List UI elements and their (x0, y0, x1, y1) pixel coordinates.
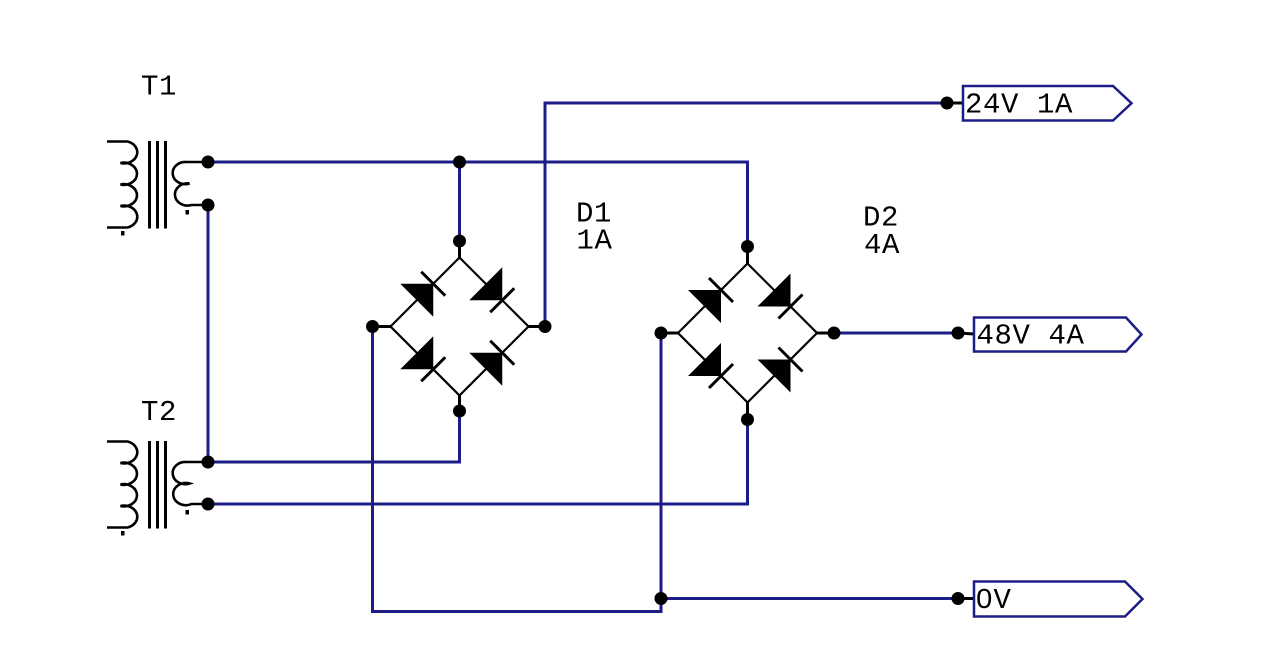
D2 diode lower-left (688, 343, 721, 376)
D1 pins (379, 246, 540, 407)
svg-text:1A: 1A (577, 225, 613, 258)
transformer T1 core (150, 141, 166, 229)
0V connector flag (974, 582, 1143, 617)
node 0V branch junction (655, 592, 668, 605)
transformer T2 secondary winding (173, 462, 207, 505)
transformer T2 core (150, 441, 166, 529)
D1 diode lower-right (469, 353, 502, 386)
node 24V junction (941, 97, 954, 110)
transformer T2 primary winding (107, 442, 137, 528)
node D1 bottom (453, 405, 466, 418)
OUTPUT 24V (941, 86, 1132, 122)
node D2 right (828, 327, 841, 340)
D1 diode upper-left (400, 284, 433, 317)
D2 diode lower-right (758, 360, 791, 393)
D1 diode lower-left (400, 336, 433, 369)
node T1 secondary bottom terminal (202, 199, 215, 212)
node 48V junction (952, 327, 965, 340)
wire T1 top to D2 top corner (208, 162, 748, 247)
transformer T1 primary winding (107, 142, 137, 228)
node 0V junction (952, 592, 965, 605)
node T1 secondary top terminal (202, 156, 215, 169)
transformer T2 polarity dot primary (121, 531, 125, 536)
24V pin stub (947, 102, 963, 105)
node D1 right (539, 320, 552, 333)
wire T2 bottom to D2 bottom (208, 420, 748, 504)
TRANSFORMER T2 (107, 441, 207, 536)
24V connector flag (963, 86, 1132, 121)
svg-text:4A: 4A (864, 229, 900, 262)
D1 diamond edges (391, 258, 529, 396)
wire T2 top to D1 bottom (208, 411, 460, 462)
transformer T2 polarity dot secondary (186, 510, 190, 515)
node T2 secondary bottom terminal (202, 498, 215, 511)
transformer T1 polarity dot primary (121, 231, 125, 236)
wire D1 left down and across to D2 left (373, 327, 662, 612)
48V connector flag (974, 318, 1142, 352)
node D2 left (655, 327, 668, 340)
48V pin stub (958, 333, 974, 334)
OUTPUT 0V (655, 582, 1143, 618)
transformer T1 secondary winding (173, 162, 207, 206)
svg-text:0V: 0V (976, 584, 1012, 617)
node D1 top (453, 235, 466, 248)
node D2 top (741, 240, 754, 253)
wire D2 right to 48V output (834, 332, 958, 335)
OUTPUT 48V (952, 318, 1142, 353)
BRIDGE RECTIFIER D2 (655, 240, 841, 426)
BRIDGE RECTIFIER D1 (366, 235, 552, 418)
0V pin stub (958, 597, 974, 600)
TRANSFORMER T1 (107, 141, 207, 236)
wire D1 right to 24V output (545, 103, 947, 327)
svg-text:T2: T2 (141, 396, 177, 429)
D1 diode upper-right (469, 267, 502, 300)
D2 diode upper-right (758, 274, 791, 307)
node D1 left (366, 320, 379, 333)
node D2 bottom (741, 413, 754, 426)
D2 diamond edges (678, 264, 817, 403)
wire T1 bottom to T2 top (207, 205, 210, 462)
D2 pins (667, 252, 829, 414)
svg-text:T1: T1 (141, 71, 177, 104)
svg-text:48V 4A: 48V 4A (977, 320, 1085, 353)
svg-text:24V 1A: 24V 1A (965, 89, 1073, 122)
transformer T1 polarity dot secondary (186, 210, 190, 215)
node T junction top wire (453, 156, 466, 169)
node T2 secondary top terminal (202, 456, 215, 469)
D2 diode upper-left (688, 290, 721, 323)
wire 0V branch (661, 597, 958, 600)
wire branch down to D1 top (458, 162, 461, 241)
